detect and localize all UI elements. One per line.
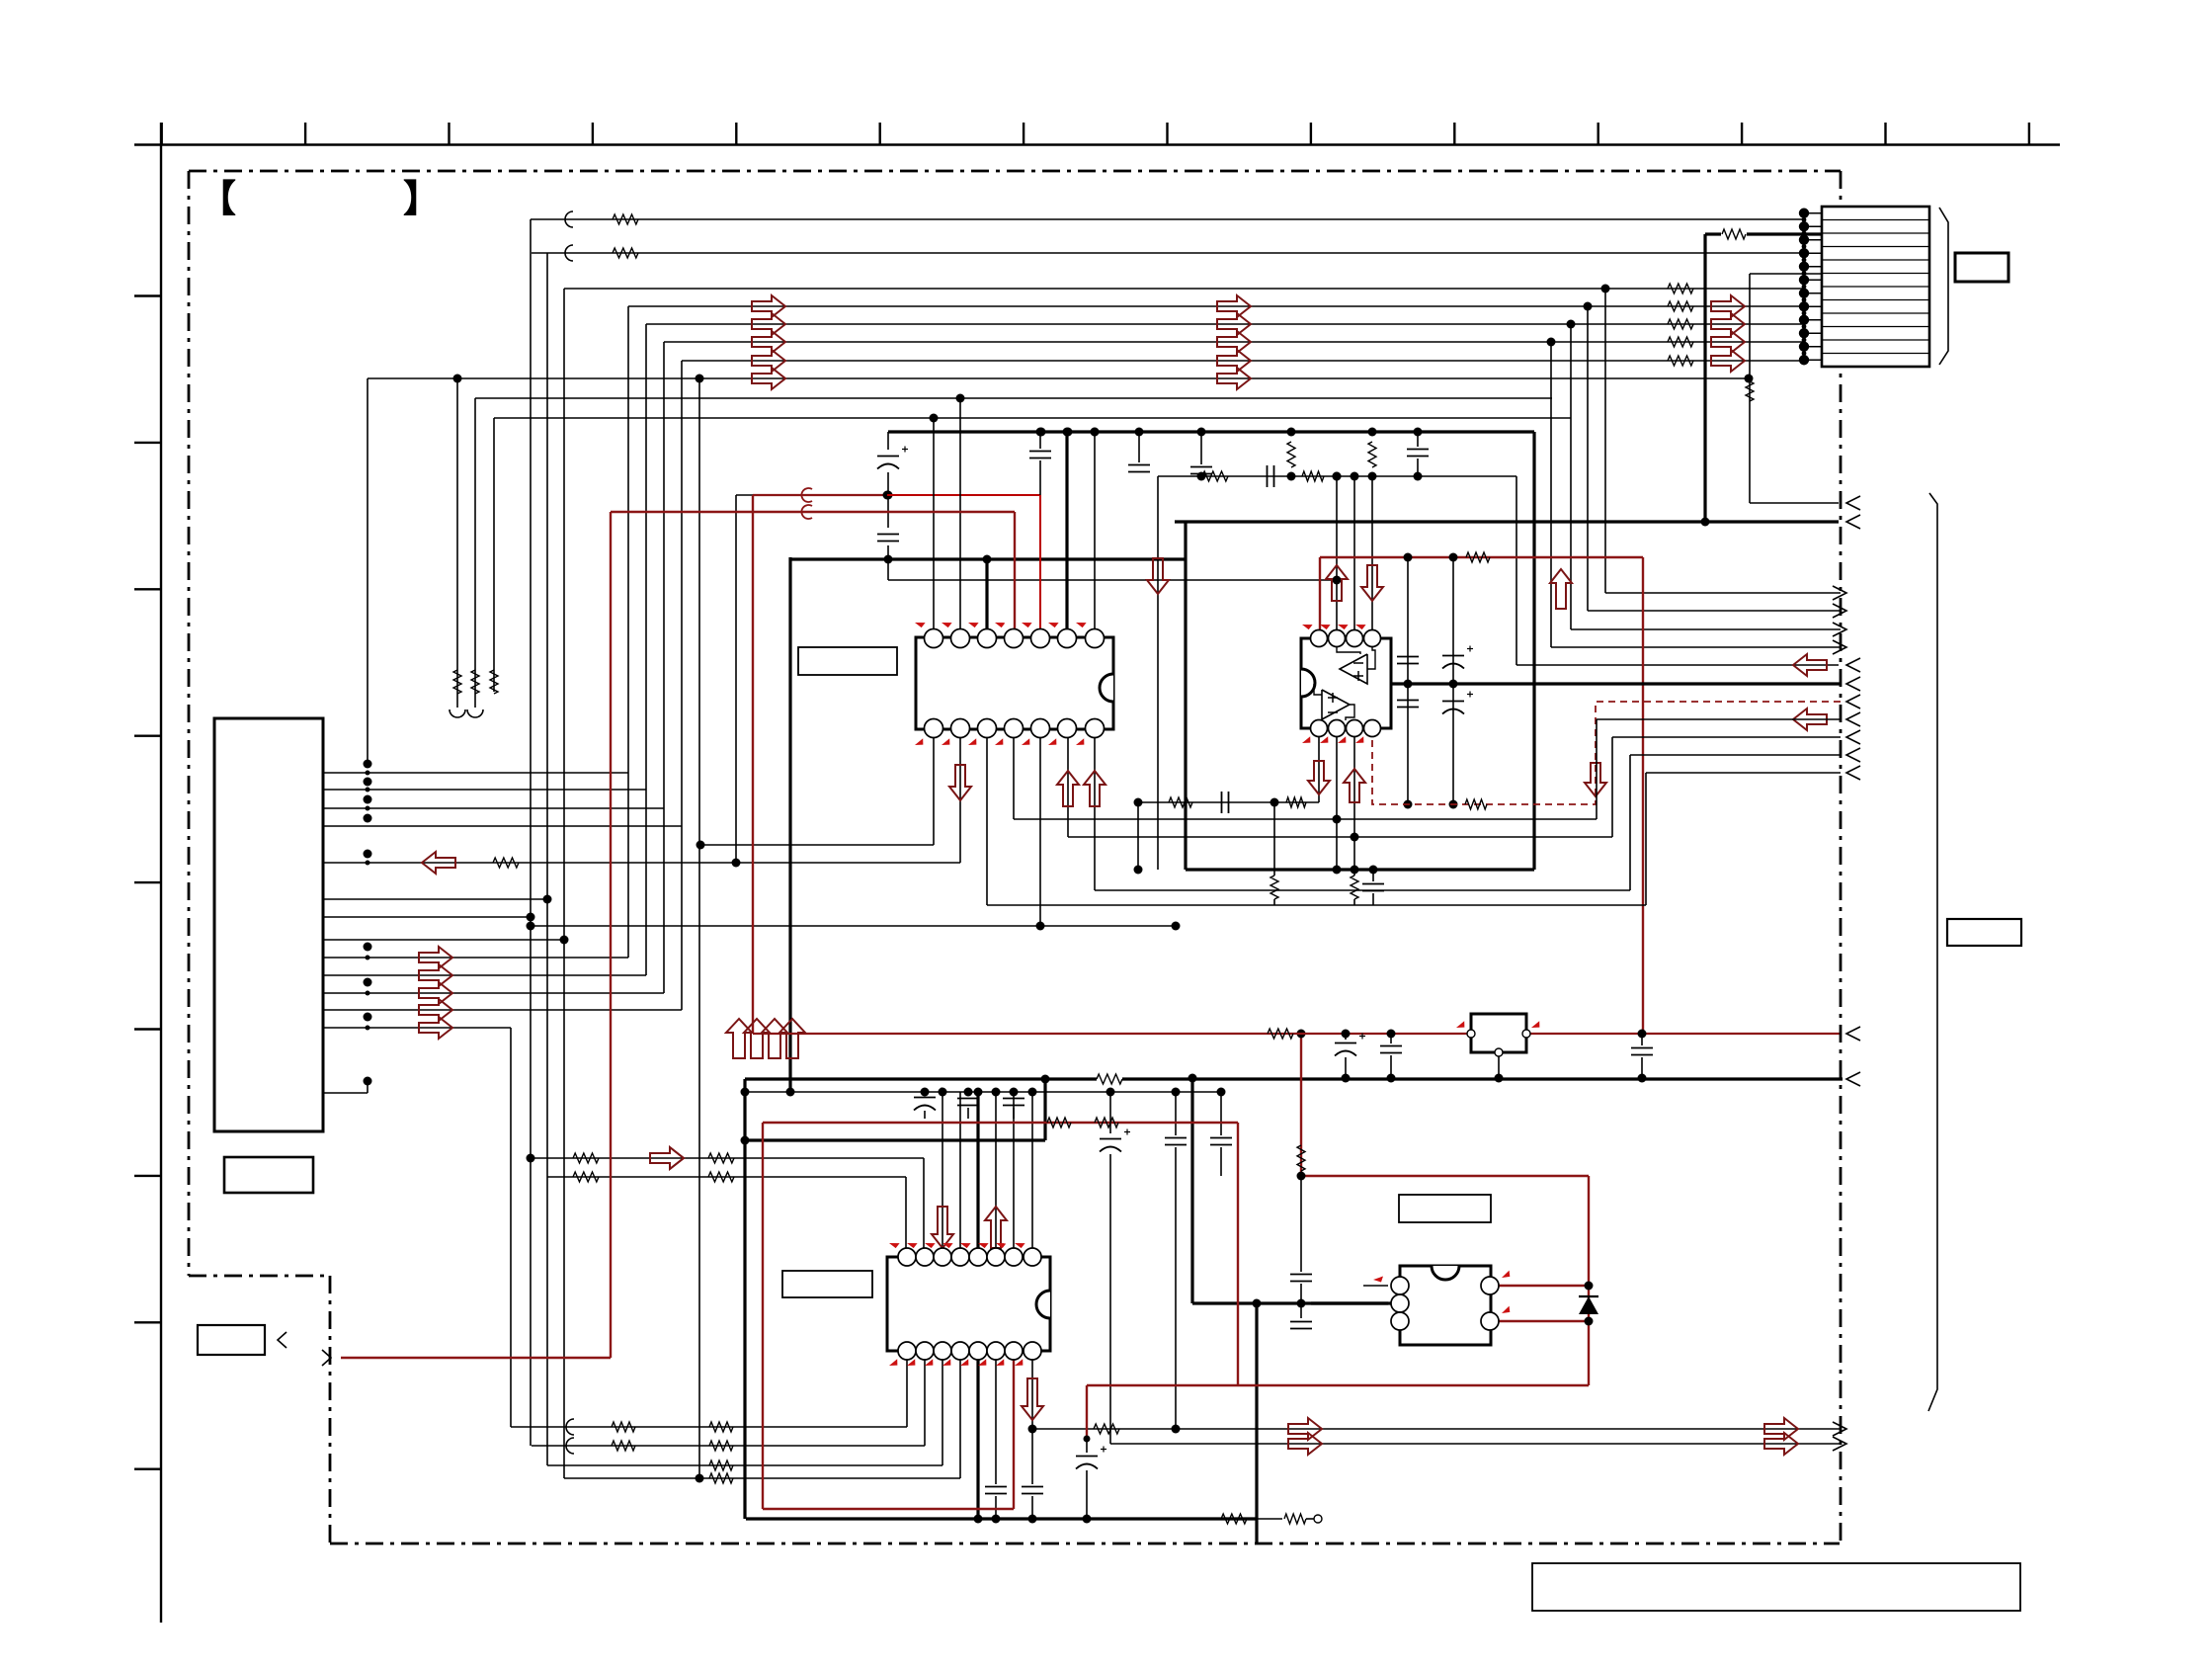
svg-text:】: 】 [403,179,441,220]
svg-text:【: 【 [199,179,236,220]
